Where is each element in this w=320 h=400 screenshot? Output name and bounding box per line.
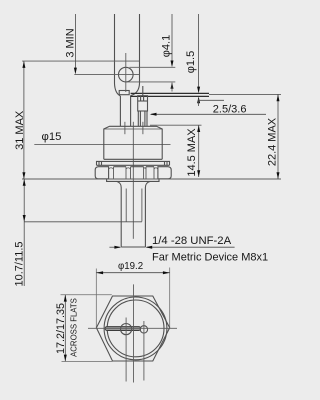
- svg-text:φ15: φ15: [42, 131, 62, 143]
- braid clamp bracket: [138, 96, 148, 111]
- svg-text:3 MIN: 3 MIN: [64, 28, 76, 57]
- svg-text:ACROSS FLATS: ACROSS FLATS: [69, 298, 78, 357]
- stud neck fillets: [117, 181, 122, 187]
- cap band line: [104, 128, 162, 130]
- dimension 22.4 MAX: [266, 94, 279, 179]
- thread minor diameter lines: [125, 189, 127, 222]
- dimension phi 19.2: [96, 261, 169, 328]
- svg-text:14.5 MAX: 14.5 MAX: [186, 128, 198, 177]
- stud thread dimension with leader: [109, 235, 268, 263]
- dimension 31 MAX: [14, 61, 26, 179]
- center / extension lines: [22, 53, 281, 179]
- threaded stud: [120, 188, 122, 248]
- dimension across flats: [55, 295, 113, 362]
- slot bar: [105, 327, 141, 331]
- svg-text:10.7/11.5: 10.7/11.5: [13, 241, 25, 286]
- washer under hex: [107, 179, 159, 181]
- hole vertical centerline: [125, 53, 127, 92]
- hole top extension line: [130, 66, 176, 68]
- crimp notch on lead: [119, 91, 129, 95]
- svg-text:31 MAX: 31 MAX: [14, 110, 26, 150]
- bottom view centerlines: [88, 284, 177, 382]
- hole horizontal centerline: [74, 74, 139, 76]
- svg-text:φ4.1: φ4.1: [160, 35, 172, 57]
- top extension line for 22.4: [209, 93, 281, 95]
- hexagon: [96, 296, 169, 361]
- gate circle: [140, 326, 147, 333]
- svg-text:22.4 MAX: 22.4 MAX: [266, 117, 278, 166]
- lead strip: [119, 96, 121, 126]
- hex face divisions: [113, 167, 115, 179]
- dimension 14.5 MAX: [186, 125, 200, 177]
- dimension 3 MIN: [64, 14, 76, 74]
- svg-text:2.5/3.6: 2.5/3.6: [213, 103, 247, 115]
- svg-text:17.2/17.35: 17.2/17.35: [55, 303, 67, 354]
- dimension phi 1.5: [185, 14, 224, 106]
- hex right corner block: [158, 167, 171, 179]
- lug top reference line: [22, 60, 139, 62]
- body bottom edge: [104, 158, 162, 160]
- cap top extension line: [150, 124, 202, 126]
- braid top line: [131, 92, 209, 94]
- dimension 10.7/11.5: [13, 179, 25, 287]
- lug terminal outline: [115, 14, 121, 96]
- bracket prongs: [137, 111, 139, 126]
- hole bottom extension line: [125, 81, 175, 83]
- braid bottom line: [131, 95, 209, 97]
- inner circle: [107, 300, 164, 357]
- dimension 2.5/3.6 leader: [150, 103, 266, 116]
- stud circle: [121, 324, 132, 335]
- lead centerline stub in body: [124, 122, 126, 134]
- svg-text:φ1.5: φ1.5: [185, 51, 197, 73]
- svg-text:φ19.2: φ19.2: [118, 261, 143, 272]
- phi 15 label: [34, 131, 170, 145]
- dimension phi 4.1: [160, 14, 173, 92]
- svg-text:1/4 -28 UNF-2A: 1/4 -28 UNF-2A: [152, 235, 232, 247]
- ceramic body outline: [104, 126, 162, 159]
- prong centerline stub in body: [142, 122, 144, 134]
- svg-text:Far Metric Device M8x1: Far Metric Device M8x1: [152, 252, 268, 264]
- thread end line: [24, 221, 142, 223]
- hex left corner block: [95, 167, 108, 179]
- lug hole: [119, 67, 134, 82]
- flange plate: [97, 161, 170, 165]
- outer circle (flange): [104, 297, 167, 360]
- seating plane line: [22, 178, 281, 180]
- main vertical centerline: [132, 122, 134, 239]
